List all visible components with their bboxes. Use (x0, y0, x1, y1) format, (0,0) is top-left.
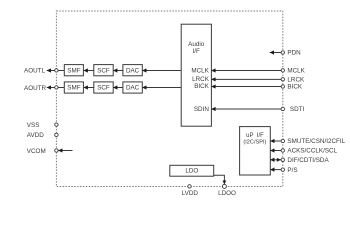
pin BICK (281, 85, 284, 88)
pin P/S (281, 168, 284, 171)
wire SMUTE/CSN/I2CFIL pin to uP I/F (270, 140, 281, 142)
svg-text:P/S: P/S (287, 167, 297, 174)
wire DAC to SCF (L) (113, 70, 123, 72)
wire Audio I/F to DAC (R) (142, 87, 181, 89)
wire LDO to LDOO pin (214, 175, 225, 181)
pin SMUTE/CSN/I2CFIL (281, 139, 284, 142)
svg-text:BICK: BICK (194, 83, 209, 90)
svg-text:VSS: VSS (27, 122, 40, 129)
wire AOUTL pin to SMF (47, 70, 65, 72)
svg-text:LVDD: LVDD (182, 190, 199, 197)
pin AOUTR (55, 86, 58, 89)
wire AOUTR pin to SMF (47, 87, 65, 89)
svg-text:LDO: LDO (185, 168, 198, 175)
svg-text:AVDD: AVDD (27, 132, 44, 139)
pin DIF/CDTI/SDA (281, 158, 284, 161)
pin AOUTL (55, 69, 58, 72)
wire DAC to SCF (R) (113, 87, 123, 89)
wire PDN stub arrow (270, 52, 281, 54)
svg-text:SMF: SMF (67, 85, 80, 92)
pin LRCK (281, 78, 284, 81)
svg-text:AOUTL: AOUTL (24, 68, 45, 75)
svg-text:SCF: SCF (97, 67, 110, 74)
block SMF (L) (64, 65, 83, 76)
svg-text:BICK: BICK (287, 84, 302, 91)
pin VCOM (55, 149, 58, 152)
svg-text:LDOO: LDOO (218, 190, 236, 197)
svg-text:AOUTR: AOUTR (24, 85, 46, 92)
svg-text:Audio: Audio (188, 41, 205, 48)
svg-text:uP I/F: uP I/F (246, 133, 264, 139)
svg-text:ACKS/CCLK/SCL: ACKS/CCLK/SCL (287, 148, 337, 155)
wire LRCK pin to Audio I/F (211, 78, 281, 80)
arrowhead DIF/CDTI/SDA toward pin (277, 158, 281, 162)
svg-text:MCLK: MCLK (191, 68, 209, 75)
svg-text:SMF: SMF (67, 67, 80, 74)
svg-text:DIF/CDTI/SDA: DIF/CDTI/SDA (287, 157, 329, 164)
block SCF (R) (94, 82, 113, 93)
svg-text:SDTI: SDTI (290, 106, 305, 113)
svg-text:VCOM: VCOM (27, 148, 46, 155)
wire BICK pin to Audio I/F (211, 86, 281, 88)
wire SDTI pin to Audio I/F SDIN (211, 108, 281, 110)
wire Audio I/F to DAC (L) (142, 70, 181, 72)
pin AVDD (55, 133, 58, 136)
wire MCLK pin to Audio I/F (211, 70, 281, 72)
svg-text:DAC: DAC (126, 85, 140, 92)
pin VSS (55, 123, 58, 126)
pin ACKS/CCLK/SCL (281, 149, 284, 152)
pin PDN (281, 51, 284, 54)
block SMF (R) (64, 82, 83, 93)
block Audio I/F (181, 24, 211, 126)
wire SCF to SMF (L) (84, 70, 94, 72)
svg-text:SMUTE/CSN/I2CFIL: SMUTE/CSN/I2CFIL (287, 138, 345, 145)
block DAC (L) (123, 65, 142, 76)
wire VCOM stub arrow (58, 150, 72, 152)
pin LVDD (188, 185, 191, 188)
svg-text:LRCK: LRCK (287, 77, 305, 84)
svg-text:I/F: I/F (193, 48, 200, 55)
block LDO (170, 165, 214, 176)
block uP I/F (I2C/SPI) (240, 127, 271, 175)
block SCF (L) (94, 65, 113, 76)
svg-text:PDN: PDN (287, 50, 301, 57)
svg-text:MCLK: MCLK (287, 68, 305, 75)
svg-text:SCF: SCF (97, 85, 110, 92)
svg-text:LRCK: LRCK (192, 76, 210, 83)
wire ACKS/CCLK/SCL pin to uP I/F (270, 150, 281, 152)
pin MCLK (281, 69, 284, 72)
pin SDTI (281, 107, 284, 110)
wire P/S pin to uP I/F (270, 169, 281, 171)
block DAC (R) (123, 82, 142, 93)
svg-text:SDIN: SDIN (194, 106, 209, 113)
svg-text:DAC: DAC (126, 67, 140, 74)
pin LDOO (222, 184, 226, 188)
arrowhead LDO to LDOO (223, 181, 227, 185)
wire SCF to SMF (R) (84, 87, 94, 89)
chip boundary (dashed) (56, 11, 282, 187)
wire DIF/CDTI/SDA pin to uP I/F (bidirectional) (270, 159, 281, 161)
svg-text:(I2C/SPI): (I2C/SPI) (243, 140, 266, 146)
